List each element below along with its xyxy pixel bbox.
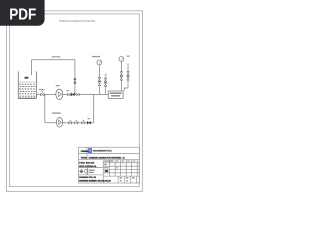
riser2 valve a: [120, 72, 123, 76]
lower loop right riser: [93, 95, 95, 123]
svg-text:OWNER: OWNER: [81, 151, 90, 153]
valve V7: [82, 120, 85, 124]
svg-text:DRAWING STD: BS: DRAWING STD: BS: [79, 176, 96, 179]
pressure gauge PG1: [97, 60, 102, 73]
valve V5: [69, 120, 72, 124]
gauge riser 2: [120, 67, 122, 91]
owner logo: [88, 148, 92, 153]
riser2 valve b: [120, 76, 123, 80]
test package box: [108, 91, 123, 98]
main suction line: [37, 94, 109, 96]
svg-text:TITLE: TITLE: [81, 157, 88, 159]
tank T1: [18, 71, 36, 98]
pump P1 label: [56, 85, 60, 86]
svg-text:P&ID: SDH-001: P&ID: SDH-001: [79, 163, 95, 165]
valve V6: [75, 120, 78, 124]
gauge riser 1: [98, 73, 100, 95]
rev table value marks: [104, 164, 108, 172]
vent riser 2: [124, 64, 128, 92]
pump P1: [56, 89, 63, 99]
PG2 label: [127, 56, 130, 57]
svg-text:STAR ENGINEERING PTE LTD: STAR ENGINEERING PTE LTD: [93, 149, 112, 152]
return line (top horizontal): [32, 59, 75, 61]
hand pump P2: [56, 118, 62, 128]
check valve V8 (filled): [87, 121, 90, 124]
hand pump label: [52, 112, 61, 113]
lower loop left drop: [44, 95, 46, 123]
tank label: [25, 77, 29, 79]
lower loop line: [45, 122, 94, 124]
valve V2: [67, 93, 70, 96]
rev table header marks: [104, 160, 135, 161]
check valve V8 label: [88, 118, 90, 119]
return line drop into tank: [31, 60, 33, 76]
svg-text:SITE: JURONG IS.: SITE: JURONG IS.: [79, 166, 97, 168]
row4 right cell marks: [104, 167, 118, 168]
row4 text marks: [89, 170, 95, 173]
valve V2 label: [67, 90, 69, 91]
pressure gauge PG2: [119, 57, 124, 67]
bottom right cell marks: [120, 177, 135, 181]
projection symbol: [79, 169, 87, 173]
return line riser: [74, 60, 76, 95]
check valve V3 (filled): [71, 93, 74, 96]
valve on return riser: [74, 79, 77, 84]
gate valve label: [39, 89, 45, 90]
inner border frame: [10, 14, 140, 187]
return line label: [52, 56, 61, 57]
gate valve V1: [41, 92, 44, 97]
valve V4: [76, 93, 79, 96]
riser1 valve b: [98, 82, 101, 86]
vent riser 1: [105, 76, 107, 94]
vent2 valve a: [127, 72, 130, 76]
svg-text:DRAWING NUMBER: SDH-04-001-R0: DRAWING NUMBER: SDH-04-001-R0: [79, 179, 111, 182]
tank water dashes: [19, 84, 36, 98]
pressure gauge label: [92, 56, 100, 57]
PDF badge: [0, 0, 45, 26]
riser1 valve a: [98, 77, 101, 81]
svg-text:SCHEMATIC DIAGRAM FOR HYDROTES: SCHEMATIC DIAGRAM FOR HYDROTEST: [59, 19, 96, 23]
outer border frame: [7, 11, 143, 192]
vent1 valve b: [104, 83, 107, 87]
title block outline: [79, 147, 140, 183]
vent1 valve a: [104, 78, 107, 82]
vent riser 1 label: [105, 74, 107, 75]
svg-text:PDF: PDF: [9, 6, 36, 23]
vent2 valve b: [127, 76, 130, 80]
svg-text:SCHEMATIC DIAGRAM FOR HYDROTES: SCHEMATIC DIAGRAM FOR HYDROTEST - 04: [89, 156, 126, 159]
